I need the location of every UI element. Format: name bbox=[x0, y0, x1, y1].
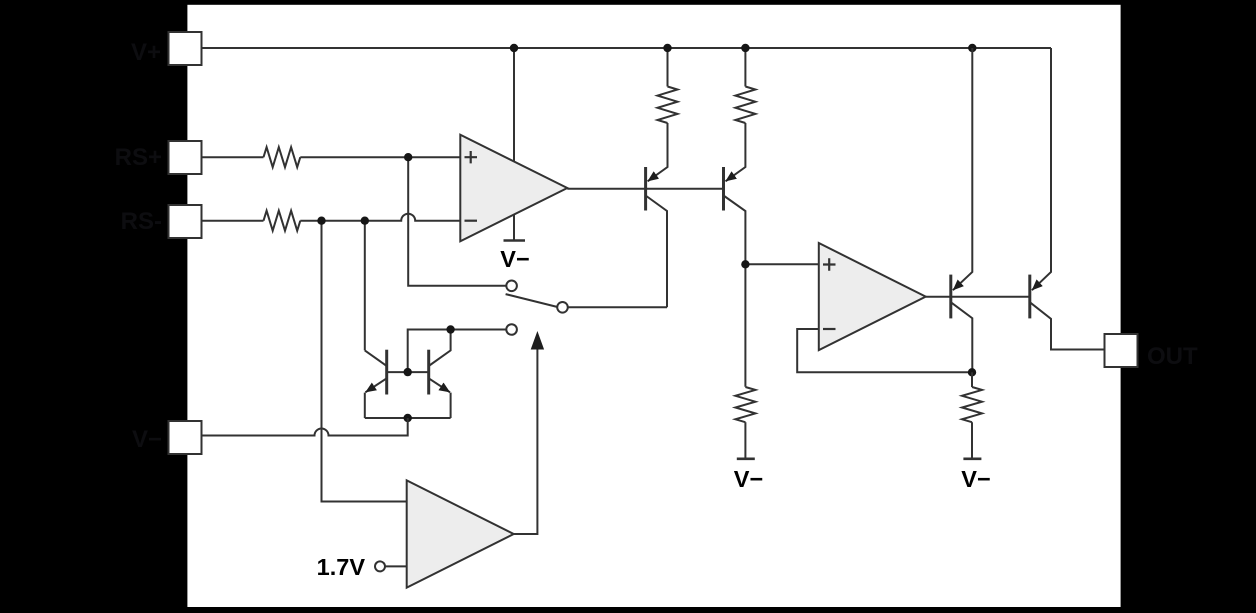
switch S1 throw contact bbox=[557, 302, 568, 313]
resistor R1 bbox=[264, 147, 301, 167]
junction dot mirror bases bbox=[404, 368, 412, 376]
wire rail to resistor R3 bbox=[667, 48, 669, 87]
wire node A drop to switch S1 pole bbox=[408, 157, 506, 286]
wire R5 to V- bar bbox=[744, 422, 746, 459]
junction dot mirror emitters bbox=[404, 414, 412, 422]
wire mirror base tie bbox=[387, 371, 429, 373]
wire V+ rail bbox=[202, 47, 1052, 49]
wire R6 to V- bar bbox=[971, 422, 973, 459]
wire rail corner to transistor Q4 emitter bbox=[1032, 48, 1051, 290]
switch S1 second throw contact bbox=[506, 324, 517, 335]
wire comparator U3 output riser bbox=[514, 348, 538, 534]
svg-text:RS+: RS+ bbox=[115, 144, 162, 171]
V- supply bar under R5 bbox=[737, 457, 755, 460]
resistor R6 bbox=[962, 387, 982, 422]
junction dot node C bbox=[361, 217, 369, 225]
current mirror transistor Q6 bbox=[429, 330, 451, 419]
current mirror transistor Q5 bbox=[365, 350, 387, 418]
pin V+ bbox=[169, 32, 202, 65]
op-amp U1 bbox=[460, 135, 567, 242]
wire rail to transistor Q3 emitter bbox=[953, 48, 972, 290]
junction dot Q2 collector tap bbox=[741, 260, 749, 268]
resistor R3 bbox=[658, 87, 678, 124]
wire R2 to op-amp U1 inverting input with hop over node A drop bbox=[300, 214, 460, 221]
resistor R2 bbox=[264, 211, 301, 231]
switch S1 lever bbox=[506, 294, 557, 307]
svg-text:RS-: RS- bbox=[121, 208, 162, 235]
svg-text:V−: V− bbox=[500, 246, 529, 272]
svg-text:V+: V+ bbox=[131, 39, 161, 66]
junction dot Q6 diode tie bbox=[446, 325, 454, 333]
resistor R5 bbox=[735, 387, 755, 422]
V- supply bar under R6 bbox=[963, 457, 981, 460]
svg-text:V−: V− bbox=[961, 466, 990, 492]
wire node C drop to current mirror Q5 collector bbox=[364, 221, 366, 351]
junction dot node B bbox=[317, 217, 325, 225]
wire R3 to transistor Q1 emitter bbox=[648, 123, 668, 181]
comparator control arrowhead bbox=[531, 331, 544, 350]
wire mirror emitter bus bbox=[365, 417, 451, 419]
transistor Q1 bbox=[646, 167, 667, 307]
junction dot Q3 collector feedback bbox=[968, 368, 976, 376]
junction dot rail at x972 bbox=[968, 44, 976, 52]
wire Q2 collector tap to op-amp U2 noninverting input bbox=[745, 263, 818, 265]
wire op-amp U2 feedback from Q3 collector bbox=[797, 329, 971, 372]
V- supply bar under op-amp U1 bbox=[504, 239, 526, 242]
wire op-amp U1 output to bases of Q1 Q2 bbox=[567, 188, 723, 190]
comparator U3 bbox=[407, 480, 514, 587]
wire R1 to op-amp U1 noninverting input bbox=[300, 156, 460, 158]
schematic body white area bbox=[187, 5, 1120, 607]
pin RS- bbox=[169, 205, 202, 238]
wire RS- input to resistor R2 bbox=[202, 220, 264, 222]
transistor Q4 bbox=[1030, 275, 1105, 350]
svg-text:V−: V− bbox=[132, 426, 162, 453]
op-amp U2 minus label bbox=[823, 328, 836, 330]
op-amp U2 bbox=[819, 243, 926, 350]
junction dot node A bbox=[404, 153, 412, 161]
op-amp U2 plus label bbox=[823, 258, 836, 270]
resistor R4 bbox=[735, 87, 755, 124]
junction dot rail at x514 bbox=[510, 44, 518, 52]
junction dot rail at x745 bbox=[741, 44, 749, 52]
wire Q3 collector to resistor R6 bbox=[971, 372, 973, 387]
wire node B drop to comparator U3 input bbox=[322, 221, 407, 502]
svg-text:OUT: OUT bbox=[1147, 343, 1198, 370]
wire RS+ input to resistor R1 bbox=[202, 156, 264, 158]
op-amp U1 plus label bbox=[465, 151, 478, 163]
pin OUT bbox=[1105, 334, 1138, 367]
1.7V reference terminal bbox=[375, 561, 385, 571]
wire op-amp U2 output to bases of Q3 Q4 bbox=[926, 296, 1029, 298]
op-amp U1 minus label bbox=[465, 220, 478, 222]
svg-text:1.7V: 1.7V bbox=[317, 554, 366, 580]
wire 1.7V terminal to comparator U3 bbox=[386, 565, 407, 567]
svg-text:V−: V− bbox=[734, 466, 763, 492]
pin V- bottom bbox=[169, 421, 202, 454]
pin RS+ bbox=[169, 141, 202, 174]
junction dot rail at x667 bbox=[663, 44, 671, 52]
transistor Q2 bbox=[724, 167, 746, 387]
wire V- pin to mirror emitters with hop over comparator feed bbox=[202, 418, 408, 436]
wire switch S1 throw to Q1 collector bbox=[568, 306, 667, 308]
wire V- supply drop to op-amp U1 bbox=[513, 48, 515, 241]
wire current mirror base line to switch second contact bbox=[408, 330, 506, 373]
wire R4 to transistor Q2 emitter bbox=[726, 123, 746, 181]
transistor Q3 bbox=[951, 275, 973, 373]
switch S1 pole contact bbox=[506, 281, 517, 292]
wire rail to resistor R4 bbox=[744, 48, 746, 87]
